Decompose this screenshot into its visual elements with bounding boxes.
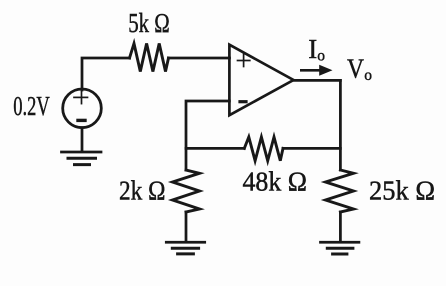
- wire: R4 bottom to ground: [339, 212, 342, 242]
- wire: R1 to op-amp + input: [169, 57, 230, 60]
- wire: source bottom to ground: [81, 128, 84, 152]
- voltage source VS circle: [63, 89, 102, 128]
- svg-text:0.2V: 0.2V: [13, 91, 50, 121]
- svg-text:2k Ω: 2k Ω: [119, 176, 166, 206]
- op-amp U1 triangle: [229, 45, 293, 116]
- wire: op-amp output to Vo corner: [294, 79, 341, 82]
- resistor R1 5k zigzag: [130, 44, 169, 72]
- op-amp minus input marker: [240, 100, 246, 103]
- svg-text:o: o: [364, 67, 372, 84]
- voltage source minus sign: [78, 119, 85, 122]
- wire: inverting input to node A: [186, 101, 229, 148]
- svg-text:V: V: [347, 54, 364, 84]
- resistor R4 25k zigzag vertical: [326, 170, 354, 212]
- wire: source top to resistor R1: [82, 58, 130, 90]
- ground G1 under source: [62, 152, 102, 165]
- svg-text:48k Ω: 48k Ω: [243, 166, 308, 196]
- svg-text:25k Ω: 25k Ω: [369, 176, 435, 206]
- wire: node A down to resistor R2: [185, 148, 188, 170]
- wire: R3 to output node: [283, 147, 340, 150]
- svg-text:5k Ω: 5k Ω: [128, 8, 170, 38]
- ground G3 under R4: [321, 242, 359, 254]
- resistor R2 2k zigzag vertical: [173, 170, 200, 212]
- resistor R3 48k zigzag: [244, 137, 283, 161]
- wire: node A to resistor R3: [186, 147, 244, 150]
- svg-text:I: I: [308, 34, 317, 64]
- wire: output corner down to resistor R4: [339, 80, 342, 170]
- op-amp plus input marker: [238, 54, 250, 66]
- ground G2 under R2: [166, 242, 204, 254]
- current arrow Io: [300, 65, 333, 76]
- svg-text:o: o: [317, 48, 325, 65]
- voltage source plus sign: [74, 91, 88, 104]
- wire: R2 bottom to ground: [185, 212, 188, 242]
